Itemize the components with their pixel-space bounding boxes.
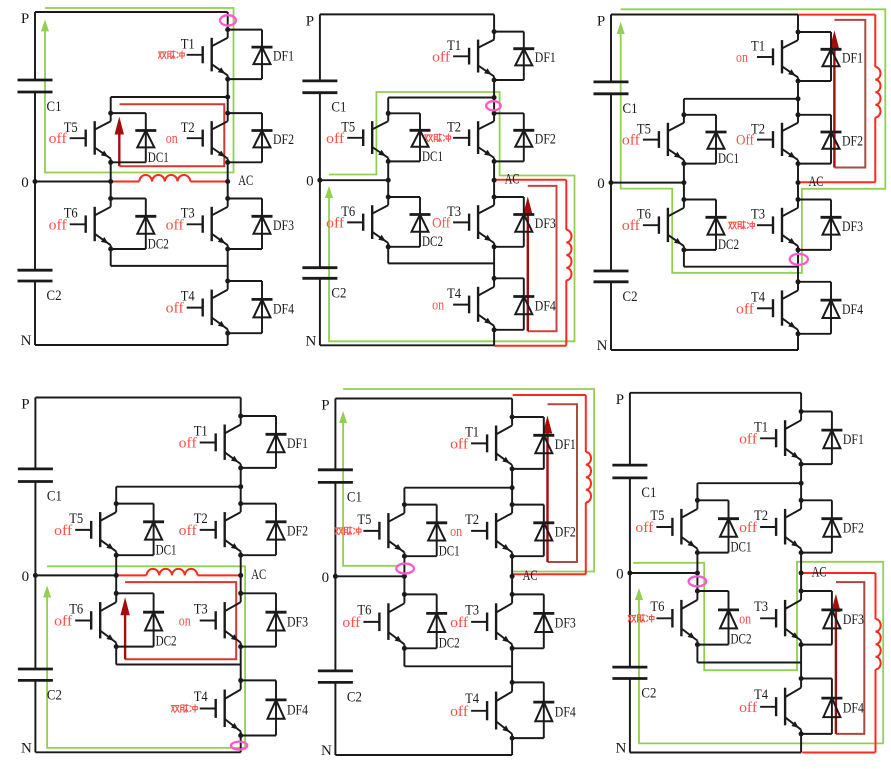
svg-text:AC: AC: [523, 568, 538, 584]
svg-text:N: N: [21, 740, 32, 756]
svg-text:N: N: [615, 741, 626, 757]
svg-text:0: 0: [616, 567, 624, 583]
svg-text:DC1: DC1: [439, 543, 460, 559]
svg-text:DC2: DC2: [718, 237, 739, 253]
svg-text:C2: C2: [47, 288, 62, 304]
svg-text:on: on: [166, 131, 178, 147]
svg-text:off: off: [450, 704, 468, 720]
svg-text:AC: AC: [809, 174, 824, 190]
svg-text:on: on: [179, 614, 191, 630]
svg-text:DF1: DF1: [842, 51, 863, 67]
svg-text:DC2: DC2: [439, 635, 460, 651]
svg-text:T1: T1: [751, 39, 765, 55]
svg-text:N: N: [305, 333, 316, 349]
svg-text:off: off: [166, 217, 184, 233]
svg-text:T3: T3: [751, 207, 765, 223]
svg-text:DF4: DF4: [843, 701, 864, 717]
svg-text:DC2: DC2: [731, 632, 752, 648]
svg-text:C1: C1: [347, 489, 362, 505]
svg-text:off: off: [342, 615, 360, 631]
svg-text:T6: T6: [650, 599, 664, 615]
svg-text:DF3: DF3: [843, 612, 864, 628]
svg-text:DF2: DF2: [535, 132, 556, 148]
svg-text:DF1: DF1: [535, 50, 556, 66]
svg-text:T2: T2: [465, 512, 479, 528]
svg-text:DF2: DF2: [555, 525, 576, 541]
svg-text:C2: C2: [347, 689, 362, 705]
svg-text:DF4: DF4: [287, 702, 308, 718]
svg-text:P: P: [321, 398, 329, 414]
svg-text:off: off: [49, 131, 67, 147]
svg-text:DF4: DF4: [535, 298, 556, 314]
svg-text:C1: C1: [47, 99, 62, 115]
svg-text:0: 0: [21, 175, 29, 191]
svg-text:off: off: [450, 436, 468, 452]
svg-text:T2: T2: [447, 120, 461, 136]
svg-text:N: N: [597, 338, 608, 354]
svg-text:0: 0: [22, 569, 30, 585]
svg-text:P: P: [21, 397, 29, 413]
svg-text:DF2: DF2: [273, 132, 294, 148]
svg-text:DF1: DF1: [555, 437, 576, 453]
svg-text:0: 0: [322, 570, 330, 586]
svg-text:T3: T3: [194, 601, 208, 617]
svg-text:0: 0: [306, 174, 314, 190]
svg-text:N: N: [21, 333, 32, 349]
svg-text:DF2: DF2: [843, 521, 864, 537]
svg-text:T1: T1: [181, 37, 195, 53]
svg-text:P: P: [616, 392, 624, 408]
svg-text:off: off: [179, 436, 197, 452]
svg-text:DF2: DF2: [842, 133, 863, 149]
svg-text:DF3: DF3: [273, 218, 294, 234]
svg-text:off: off: [635, 520, 653, 536]
svg-text:AC: AC: [812, 565, 827, 581]
svg-text:N: N: [321, 743, 332, 759]
svg-text:C1: C1: [641, 485, 656, 501]
svg-text:T2: T2: [181, 120, 195, 136]
svg-text:off: off: [622, 133, 640, 149]
svg-text:DF1: DF1: [273, 49, 294, 65]
svg-text:DF3: DF3: [555, 616, 576, 632]
svg-text:off: off: [739, 520, 757, 536]
svg-text:off: off: [450, 615, 468, 631]
svg-text:P: P: [306, 13, 314, 29]
svg-text:P: P: [597, 14, 605, 30]
svg-text:C2: C2: [331, 285, 346, 301]
svg-text:C1: C1: [331, 100, 346, 116]
svg-text:off: off: [622, 218, 640, 234]
svg-text:off: off: [432, 49, 450, 65]
svg-text:DC2: DC2: [422, 234, 443, 250]
svg-text:DF3: DF3: [535, 216, 556, 232]
svg-text:AC: AC: [251, 567, 266, 583]
svg-text:DF4: DF4: [842, 302, 863, 318]
svg-text:off: off: [736, 301, 754, 317]
svg-text:DF1: DF1: [287, 436, 308, 452]
svg-text:C2: C2: [47, 687, 62, 703]
svg-text:0: 0: [597, 176, 605, 192]
svg-text:DF3: DF3: [842, 219, 863, 235]
svg-text:off: off: [54, 523, 72, 539]
svg-text:AC: AC: [238, 173, 253, 189]
svg-text:DF4: DF4: [273, 301, 294, 317]
svg-text:DC1: DC1: [718, 151, 739, 167]
svg-text:DF2: DF2: [287, 524, 308, 540]
svg-text:on: on: [432, 298, 444, 314]
svg-text:T5: T5: [357, 512, 371, 528]
svg-text:DF4: DF4: [555, 705, 576, 721]
svg-text:on: on: [736, 50, 748, 66]
svg-text:DC1: DC1: [148, 150, 169, 166]
svg-text:on: on: [450, 524, 462, 540]
svg-text:off: off: [54, 614, 72, 630]
svg-text:C2: C2: [623, 289, 638, 305]
svg-text:off: off: [49, 217, 67, 233]
svg-text:T3: T3: [754, 599, 768, 615]
svg-text:DF3: DF3: [287, 614, 308, 630]
svg-text:DC2: DC2: [148, 236, 169, 252]
svg-text:DC2: DC2: [156, 634, 177, 650]
svg-text:off: off: [179, 523, 197, 539]
svg-text:off: off: [326, 131, 344, 147]
svg-text:DC1: DC1: [156, 543, 177, 559]
svg-text:off: off: [739, 431, 757, 447]
svg-text:off: off: [166, 301, 184, 317]
svg-text:C1: C1: [623, 101, 638, 117]
svg-text:Off: Off: [432, 215, 450, 231]
svg-text:T4: T4: [194, 689, 208, 705]
svg-text:P: P: [21, 11, 29, 27]
svg-text:AC: AC: [505, 172, 520, 188]
svg-text:DC1: DC1: [731, 540, 752, 556]
svg-text:Off: Off: [736, 133, 754, 149]
svg-text:T4: T4: [447, 286, 461, 302]
svg-text:off: off: [326, 215, 344, 231]
svg-text:DF1: DF1: [843, 432, 864, 448]
svg-text:on: on: [739, 611, 751, 627]
svg-text:C1: C1: [47, 489, 62, 505]
svg-text:C2: C2: [641, 686, 656, 702]
svg-text:off: off: [739, 700, 757, 716]
svg-text:DC1: DC1: [422, 149, 443, 165]
